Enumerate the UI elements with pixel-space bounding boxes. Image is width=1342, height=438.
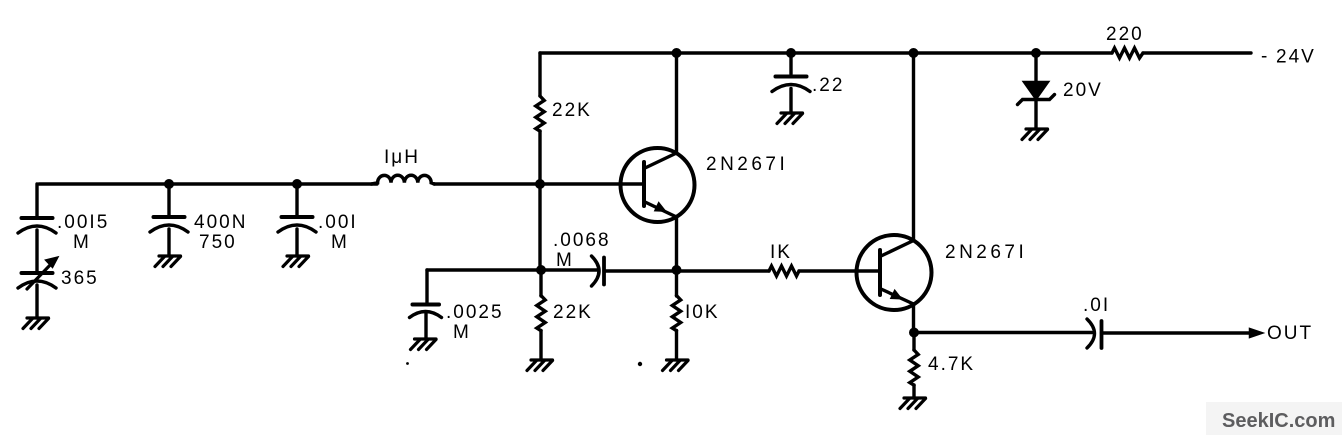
capacitor .001 M plates	[282, 215, 313, 219]
svg-text:.22: .22	[812, 75, 844, 96]
capacitor .0068 M curved plate	[592, 256, 600, 286]
wire: rail to -24V terminal	[1143, 51, 1251, 54]
svg-text:2N267I: 2N267I	[706, 154, 788, 175]
wire to ground	[912, 333, 915, 399]
resistor 22K (lower) body	[537, 296, 545, 331]
capacitor .01 curved plate	[1087, 319, 1095, 348]
ground: .0025 cap	[411, 339, 437, 350]
junction node dots	[164, 48, 1041, 366]
node: rail/Q1 collector	[672, 48, 682, 58]
wire: Q2 collector to rail	[912, 53, 915, 241]
node: input/C3 junction	[292, 179, 302, 189]
svg-text:750: 750	[199, 232, 237, 253]
ground: 400N cap	[155, 256, 181, 267]
wire: cap to 1K	[604, 269, 769, 272]
ground: 4.7K	[900, 398, 926, 409]
node: lower rail/22K	[536, 265, 546, 275]
capacitor 400N 750 : lead	[167, 184, 170, 215]
svg-text:M: M	[453, 322, 471, 343]
stray ink speck 2	[406, 362, 409, 365]
wire: Q1 collector to rail	[675, 53, 678, 153]
transistor Q1 2N2671 circle	[621, 148, 695, 222]
svg-text:4.7K: 4.7K	[928, 354, 975, 375]
svg-text:.00I5: .00I5	[57, 212, 109, 233]
svg-text:I0K: I0K	[685, 302, 720, 323]
wire: input line left segment	[39, 182, 377, 185]
wire to ground	[789, 89, 792, 114]
wire to ground	[424, 313, 427, 339]
ground: zener	[1022, 129, 1048, 140]
Q1 emitter diagonal	[645, 202, 677, 217]
resistor 22K (upper) lead + body	[538, 53, 541, 96]
wire to variable cap	[35, 230, 38, 271]
capacitor .22 plates	[776, 75, 807, 79]
resistor 1K body	[769, 266, 799, 276]
svg-text:M: M	[331, 232, 349, 253]
svg-text:M: M	[73, 232, 91, 253]
capacitor 400N 750 plates	[154, 215, 185, 219]
wire: cap to OUT	[1102, 331, 1251, 334]
wire: 1K to Q2 base	[799, 269, 880, 272]
svg-text:24V: 24V	[1276, 47, 1316, 68]
svg-text:2N267I: 2N267I	[945, 242, 1027, 263]
inductor L 1uH	[372, 175, 435, 184]
svg-text:22K: 22K	[553, 302, 593, 323]
Q2 collector diagonal	[881, 241, 914, 257]
wire: output line	[914, 331, 1092, 334]
node: rail/Q2 collector	[909, 48, 919, 58]
node: rail/.22 cap	[786, 48, 796, 58]
svg-text:22K: 22K	[552, 100, 592, 121]
svg-text:365: 365	[61, 268, 99, 289]
wire to ground	[1034, 99, 1037, 129]
ground: .001 cap	[283, 256, 309, 267]
zener diode 20V : lead	[1034, 53, 1037, 82]
Q2 emitter arrow	[891, 290, 902, 299]
svg-text:M: M	[556, 250, 574, 271]
capacitor .001 M : lead	[295, 184, 298, 215]
wire: Q1 emitter down	[675, 217, 678, 270]
capacitor .0025 M : lead	[425, 270, 428, 303]
node: rail/zener	[1031, 48, 1041, 58]
resistor 4.7K body	[910, 350, 918, 385]
ground: .22 cap	[777, 113, 803, 124]
ground: C1/365 branch	[23, 318, 49, 329]
capacitor .0068 M straight plate	[602, 258, 606, 285]
capacitor .01 straight plate	[1100, 321, 1104, 348]
wire to ground	[675, 270, 678, 360]
resistor 10K body	[672, 296, 680, 331]
Q1 emitter arrow	[655, 203, 666, 212]
ground: 22K lower	[527, 360, 553, 371]
node: lower rail/10K/Q1 emitter	[672, 265, 682, 275]
svg-text:220: 220	[1106, 24, 1144, 45]
Q1 base bar	[642, 162, 646, 206]
stray ink speck	[638, 362, 642, 366]
Q2 emitter diagonal	[881, 289, 914, 304]
svg-text:SeekIC.com: SeekIC.com	[1222, 410, 1335, 432]
Q1 collector diagonal	[645, 153, 677, 168]
resistor 220 body	[1112, 48, 1143, 58]
wire: lower rail left part	[427, 268, 598, 271]
svg-text:20V: 20V	[1063, 80, 1103, 101]
svg-text:IμH: IμH	[384, 147, 420, 168]
node: input/C1 junction	[164, 179, 174, 189]
capacitor .0015 M plates	[22, 216, 53, 220]
wire to ground	[295, 229, 298, 256]
wire: bias divider vertical (to lower rail)	[538, 184, 541, 270]
svg-text:OUT: OUT	[1267, 323, 1313, 344]
wire to ground	[35, 285, 38, 318]
capacitor .22 : lead	[789, 53, 792, 74]
transistor Q2 2N2671 circle	[857, 235, 932, 310]
zener diode triangle	[1024, 82, 1048, 99]
capacitor .0015 M : lead	[35, 184, 38, 216]
svg-text:.00I: .00I	[318, 212, 358, 233]
node: Q2 emitter/output	[909, 328, 919, 338]
svg-text:IK: IK	[770, 242, 792, 263]
svg-text:.0I: .0I	[1083, 295, 1110, 316]
wire to ground	[167, 229, 170, 256]
Q2 base bar	[878, 250, 882, 295]
wire: Q2 emitter down	[912, 304, 915, 333]
svg-text:400N: 400N	[194, 212, 247, 233]
svg-text:.0025: .0025	[446, 302, 504, 323]
variable capacitor 365 plates	[22, 271, 53, 275]
wire: inductor to base of Q1	[434, 182, 644, 185]
variable capacitor arrow	[27, 262, 53, 289]
wire to ground	[539, 270, 542, 360]
capacitor .0025 M plates	[413, 303, 440, 307]
ground: 10K	[663, 360, 689, 371]
OUT arrowhead	[1250, 328, 1264, 337]
node: Q1 base junction	[535, 179, 545, 189]
svg-text:.0068: .0068	[553, 230, 611, 251]
watermark background	[1206, 402, 1342, 435]
svg-text:-: -	[1261, 46, 1269, 67]
wire: top supply rail	[540, 51, 1112, 54]
zener cathode bar	[1018, 95, 1055, 105]
